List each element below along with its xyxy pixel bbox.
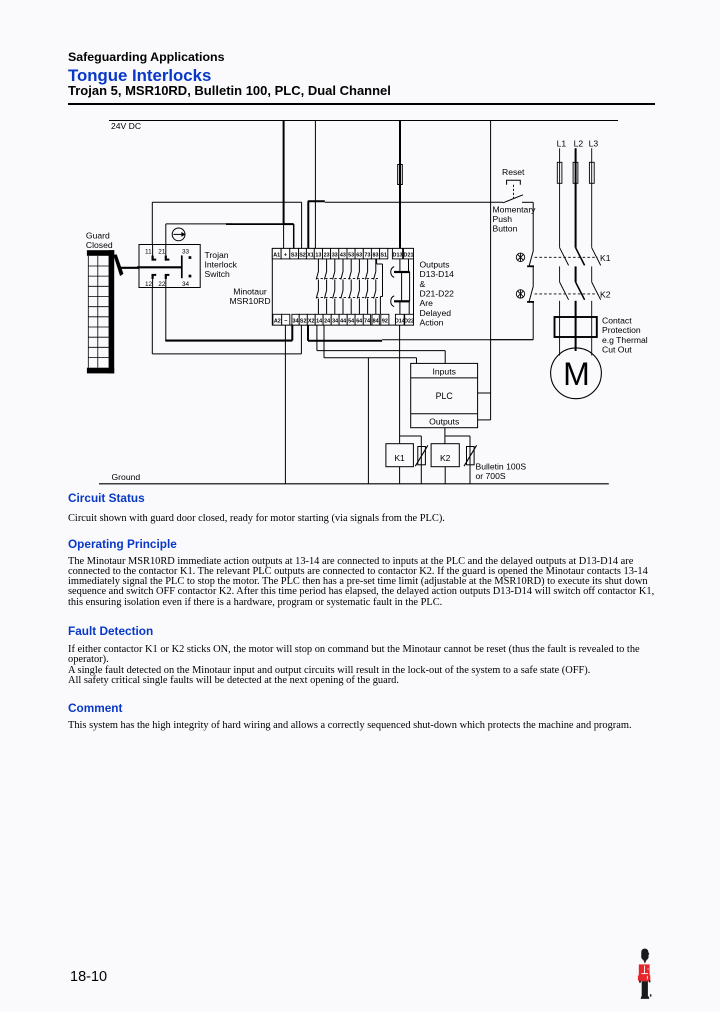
svg-text:M: M [563, 356, 590, 392]
svg-text:34: 34 [182, 281, 190, 288]
svg-text:K2: K2 [440, 453, 451, 463]
svg-text:or 700S: or 700S [476, 471, 506, 481]
svg-text:S3: S3 [291, 252, 298, 258]
svg-text:43: 43 [340, 252, 346, 258]
svg-text:Interlock: Interlock [205, 260, 238, 270]
svg-text:Reset: Reset [502, 167, 525, 177]
svg-text:PLC: PLC [436, 391, 454, 401]
svg-text:Minotaur: Minotaur [233, 287, 267, 297]
svg-text:Button: Button [493, 224, 518, 234]
svg-text:33: 33 [182, 248, 190, 255]
svg-text:−: − [284, 319, 287, 325]
svg-text:S2: S2 [299, 252, 306, 258]
svg-text:Inputs: Inputs [432, 366, 455, 376]
svg-text:24: 24 [324, 319, 330, 325]
svg-text:Outputs: Outputs [429, 417, 459, 427]
svg-text:D21-D22: D21-D22 [420, 288, 455, 298]
svg-text:A2: A2 [274, 319, 281, 325]
svg-text:63: 63 [356, 252, 362, 258]
svg-text:MSR10RD: MSR10RD [229, 296, 270, 306]
svg-text:13: 13 [315, 252, 321, 258]
svg-text:53: 53 [348, 252, 354, 258]
svg-text:33: 33 [332, 252, 338, 258]
svg-text:44: 44 [340, 319, 346, 325]
svg-text:Contact: Contact [602, 315, 632, 325]
svg-text:D22: D22 [404, 319, 414, 325]
svg-text:21: 21 [158, 248, 166, 255]
svg-text:K1: K1 [394, 453, 405, 463]
svg-text:D21: D21 [404, 252, 414, 258]
svg-text:84: 84 [373, 319, 379, 325]
svg-text:e.g Thermal: e.g Thermal [602, 335, 648, 345]
svg-text:34: 34 [293, 319, 299, 325]
svg-text:Push: Push [493, 214, 513, 224]
svg-text:Cut Out: Cut Out [602, 345, 632, 355]
svg-text:73: 73 [364, 252, 370, 258]
svg-text:Momentary: Momentary [493, 205, 537, 215]
svg-text:L2: L2 [574, 138, 584, 148]
svg-text:23: 23 [324, 252, 330, 258]
svg-text:12: 12 [145, 281, 153, 288]
svg-text:11: 11 [145, 248, 152, 255]
svg-text:24V DC: 24V DC [111, 121, 141, 131]
svg-text:D13-D14: D13-D14 [420, 269, 455, 279]
svg-text:X1: X1 [307, 252, 314, 258]
svg-text:S1: S1 [380, 252, 387, 258]
svg-text:S2: S2 [300, 319, 307, 325]
svg-text:Closed: Closed [86, 240, 113, 250]
svg-text:&: & [420, 279, 426, 289]
svg-text:Outputs: Outputs [420, 260, 450, 270]
svg-text:A1: A1 [273, 252, 280, 258]
svg-text:Protection: Protection [602, 325, 641, 335]
svg-text:+: + [284, 252, 287, 258]
svg-text:Are: Are [420, 298, 434, 308]
svg-text:74: 74 [364, 319, 370, 325]
svg-text:L3: L3 [589, 138, 599, 148]
svg-text:14: 14 [316, 319, 322, 325]
svg-text:Bulletin 100S: Bulletin 100S [476, 461, 527, 471]
svg-text:54: 54 [348, 319, 354, 325]
svg-text:Guard: Guard [86, 230, 110, 240]
svg-text:L1: L1 [557, 138, 567, 148]
svg-text:Ground: Ground [112, 472, 141, 482]
svg-text:Action: Action [420, 317, 444, 327]
svg-text:K2: K2 [600, 289, 611, 299]
svg-text:64: 64 [356, 319, 362, 325]
svg-text:92: 92 [382, 319, 388, 325]
svg-text:34: 34 [332, 319, 338, 325]
svg-text:22: 22 [158, 281, 166, 288]
svg-text:Switch: Switch [205, 269, 231, 279]
svg-text:K1: K1 [600, 253, 611, 263]
svg-text:83: 83 [373, 252, 379, 258]
svg-text:Trojan: Trojan [205, 250, 229, 260]
svg-text:D13: D13 [393, 252, 403, 258]
svg-text:X2: X2 [308, 319, 315, 325]
svg-text:Delayed: Delayed [420, 308, 452, 318]
